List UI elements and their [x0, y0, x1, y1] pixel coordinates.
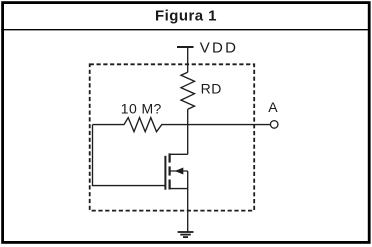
svg-text:Figura 1: Figura 1 [155, 8, 217, 25]
svg-text:10 M?: 10 M? [121, 101, 162, 117]
svg-text:VDD: VDD [200, 40, 239, 57]
svg-text:A: A [268, 99, 278, 115]
svg-text:RD: RD [201, 81, 222, 97]
